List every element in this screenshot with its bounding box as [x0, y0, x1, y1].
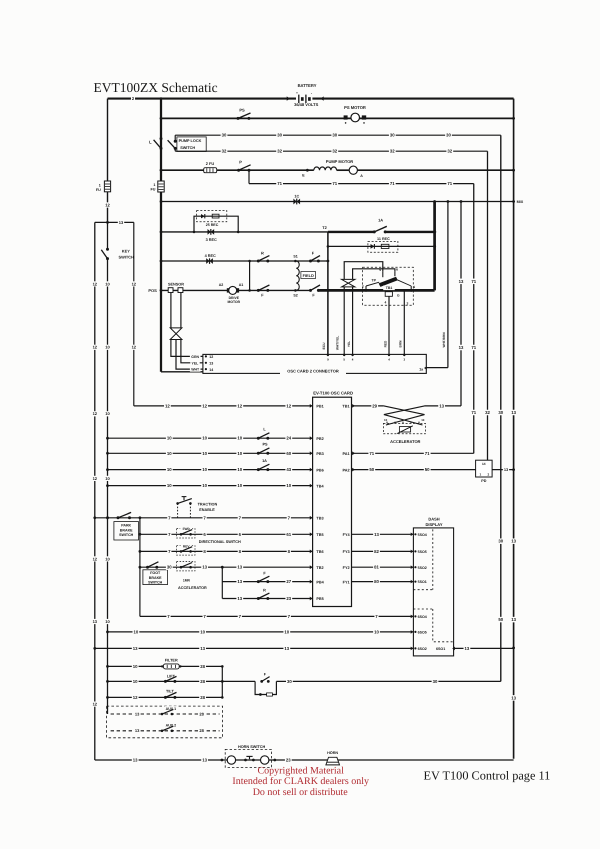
- potentiometer ACCELERATOR with crossed leads: [383, 406, 425, 444]
- wire vertical net 71 (x=473.75): [470, 184, 477, 454]
- svg-text:13: 13: [200, 646, 205, 651]
- pin 6SO2: [411, 647, 427, 651]
- wire row TB6 net 7/8 with switch REV: [140, 549, 350, 555]
- svg-text:50: 50: [498, 617, 503, 622]
- svg-text:10: 10: [133, 679, 138, 684]
- display DASH DISPLAY box: [413, 516, 453, 656]
- svg-text:28: 28: [199, 728, 204, 733]
- svg-text:12: 12: [105, 202, 110, 207]
- svg-text:13: 13: [511, 617, 516, 622]
- svg-text:13: 13: [511, 410, 516, 415]
- svg-text:30: 30: [287, 679, 292, 684]
- switch KEY SWITCH: [101, 248, 134, 260]
- svg-text:1: 1: [99, 184, 101, 188]
- svg-text:PS: PS: [239, 108, 245, 113]
- wire row AUX 1 (dashed) net 13/28: [111, 706, 220, 717]
- wire net 13 MIX row (y=201.5): [161, 201, 514, 203]
- battery 36/48V: [294, 83, 318, 107]
- inductor FIELD winding: [296, 261, 315, 290]
- svg-text:32: 32: [222, 149, 227, 154]
- switch PS: [237, 108, 251, 120]
- wire row net 10 to 6SO5 (y=631.9): [108, 629, 414, 635]
- svg-text:DISPLAY: DISPLAY: [426, 522, 443, 527]
- svg-text:RED: RED: [384, 340, 388, 347]
- connector arrow right of battery: [320, 96, 323, 100]
- fuse 1FU (left): [96, 181, 111, 208]
- wire row TB1 net 29/13 to accelerator: [342, 403, 461, 409]
- svg-text:10: 10: [105, 619, 110, 624]
- svg-text:32: 32: [277, 149, 282, 154]
- svg-text:MIX: MIX: [517, 200, 524, 204]
- wire pump motor row (y=170.2): [161, 169, 514, 171]
- svg-text:4 REC: 4 REC: [205, 254, 216, 258]
- svg-text:TRACTION: TRACTION: [198, 503, 218, 507]
- pin 5SO2: [411, 565, 427, 569]
- svg-text:TB2: TB2: [316, 566, 323, 570]
- svg-text:13: 13: [119, 220, 124, 225]
- svg-text:A2: A2: [219, 283, 224, 287]
- wire vertical net 13 branch (x=461): [458, 202, 465, 406]
- svg-text:FY4: FY4: [343, 533, 351, 537]
- wire row AUX 2 (dashed) net 13/28: [111, 723, 220, 734]
- svg-text:5SO2: 5SO2: [418, 566, 427, 570]
- switch TRACTION ENABLE (dashed): [176, 497, 217, 518]
- svg-text:Intended for CLARK dealers onl: Intended for CLARK dealers only: [232, 776, 369, 787]
- svg-text:50: 50: [425, 467, 430, 472]
- svg-text:YEL: YEL: [191, 361, 199, 365]
- svg-text:WHT/YEL: WHT/YEL: [336, 336, 340, 350]
- svg-text:10: 10: [374, 629, 379, 634]
- svg-text:10: 10: [202, 451, 207, 456]
- svg-text:3: 3: [407, 302, 409, 306]
- wire 4REC row (y=261): [161, 260, 328, 262]
- svg-text:12: 12: [93, 281, 98, 286]
- label YEL rotated: [347, 341, 351, 347]
- wire row PA1 net 71: [342, 451, 473, 457]
- svg-text:30: 30: [498, 539, 503, 544]
- svg-text:3 REC: 3 REC: [206, 238, 217, 242]
- wire WHT lead: [176, 340, 203, 372]
- svg-text:TP: TP: [372, 278, 377, 282]
- svg-text:10: 10: [134, 629, 139, 634]
- pin 1a: [419, 366, 427, 371]
- svg-text:10: 10: [105, 556, 110, 561]
- svg-text:A1: A1: [239, 283, 244, 287]
- wire row PB4 net 13/27 with switch F: [222, 572, 349, 585]
- svg-text:DASH: DASH: [428, 516, 439, 521]
- svg-text:PS: PS: [262, 443, 268, 447]
- svg-text:GRN: GRN: [191, 355, 199, 359]
- svg-text:13: 13: [202, 565, 207, 570]
- sensor SENSOR pickup: [168, 283, 184, 293]
- svg-text:PB1: PB1: [316, 405, 323, 409]
- pin 5: [379, 268, 383, 277]
- svg-text:13: 13: [284, 646, 289, 651]
- pin 5SO5: [411, 550, 427, 554]
- svg-text:13: 13: [209, 362, 213, 366]
- pin 5SO1: [411, 580, 427, 584]
- svg-text:10: 10: [167, 483, 172, 488]
- svg-text:10: 10: [105, 411, 110, 416]
- svg-text:Do not sell or distribute: Do not sell or distribute: [253, 787, 349, 798]
- svg-text:12: 12: [237, 403, 242, 408]
- wire GRN lead: [171, 340, 203, 360]
- wire key switch top link (y=222.4): [95, 220, 134, 225]
- svg-text:71: 71: [471, 279, 476, 284]
- fuse 2FU: [204, 161, 217, 173]
- svg-text:29: 29: [372, 403, 377, 408]
- wire heavy contactor bus (x=434.6): [433, 202, 436, 291]
- svg-text:PB4: PB4: [316, 580, 324, 584]
- node T2 / wire vertical T2 to ECU: [322, 225, 329, 355]
- wire row PB3 net 10/60 with switch PS: [108, 443, 324, 456]
- switch REV (dashed): [177, 543, 195, 555]
- node E junction: [302, 169, 309, 178]
- svg-text:+: +: [296, 91, 298, 95]
- svg-text:71: 71: [471, 345, 476, 350]
- svg-text:71: 71: [332, 181, 337, 186]
- wire key-switch vertical net 10 (x=107.5): [104, 222, 110, 714]
- svg-text:10: 10: [167, 467, 172, 472]
- pin 2: [362, 282, 379, 292]
- svg-text:13: 13: [202, 758, 207, 763]
- wire net 71 (y=183.6): [249, 170, 474, 186]
- wire row PB2 net 10/24 with switch L: [108, 427, 324, 441]
- svg-text:BRN: BRN: [399, 340, 403, 348]
- diode-resistor 11REC: [368, 237, 398, 252]
- svg-text:PA1: PA1: [342, 452, 349, 456]
- svg-text:13: 13: [135, 711, 140, 716]
- svg-text:KEY: KEY: [122, 248, 130, 253]
- diode 1C: [293, 194, 300, 205]
- svg-text:13: 13: [511, 539, 516, 544]
- wire YEL lead: [181, 340, 203, 366]
- svg-text:30: 30: [332, 133, 337, 138]
- connector top pin dots: [327, 354, 406, 362]
- svg-text:R: R: [261, 251, 264, 256]
- switch F (field top): [309, 250, 320, 262]
- svg-text:WHT: WHT: [191, 368, 200, 372]
- wire row FY4 net 13 to dash 5SO4: [352, 532, 414, 538]
- pin 6SO5: [411, 630, 427, 634]
- svg-text:32: 32: [390, 149, 395, 154]
- pin 6SO1 with wire net 13: [436, 646, 514, 652]
- svg-text:FY3: FY3: [343, 550, 350, 554]
- module PD: [476, 460, 493, 483]
- svg-text:PA2: PA2: [342, 468, 349, 472]
- switch FWD (dashed): [177, 526, 195, 538]
- svg-text:1: 1: [480, 472, 482, 476]
- svg-text:12: 12: [286, 403, 291, 408]
- svg-text:PB2: PB2: [316, 437, 323, 441]
- wire row FY2 net 81 to dash 5SO2: [352, 564, 414, 570]
- svg-text:27: 27: [286, 579, 291, 584]
- switch R (field): [257, 251, 270, 263]
- svg-text:ENABLE: ENABLE: [199, 508, 215, 512]
- filter FILTER component: [161, 658, 182, 669]
- wire 11REC row (y=246.4): [327, 245, 437, 248]
- svg-text:6SO1: 6SO1: [436, 647, 445, 651]
- wire row LIFT net 10/28/30 (y=681.4): [108, 674, 501, 685]
- svg-text:36/48 VOLTS: 36/48 VOLTS: [294, 102, 318, 107]
- switch 1A: [373, 218, 387, 234]
- label DIRECTIONAL SWITCH: [199, 540, 241, 544]
- svg-text:Copyrighted Material: Copyrighted Material: [258, 766, 345, 777]
- svg-text:1C: 1C: [294, 194, 299, 198]
- svg-text:13: 13: [135, 728, 140, 733]
- svg-text:71: 71: [447, 181, 452, 186]
- svg-text:A: A: [360, 174, 363, 178]
- svg-text:12: 12: [133, 695, 138, 700]
- svg-text:ACCELERATOR: ACCELERATOR: [390, 439, 420, 444]
- svg-text:10: 10: [284, 629, 289, 634]
- wire vertical net 12 to PB1 (x=133.8): [131, 222, 137, 406]
- svg-text:10: 10: [384, 418, 388, 422]
- svg-text:12: 12: [93, 702, 98, 707]
- svg-text:12: 12: [132, 281, 137, 286]
- switch P: [237, 159, 251, 171]
- svg-text:ECU: ECU: [322, 342, 326, 350]
- svg-text:1: 1: [153, 183, 155, 187]
- svg-text:SENSOR: SENSOR: [168, 283, 184, 287]
- svg-text:12: 12: [202, 403, 207, 408]
- svg-text:5: 5: [379, 268, 381, 272]
- svg-text:50: 50: [369, 467, 374, 472]
- svg-text:61: 61: [286, 532, 291, 537]
- junction dots on main bus: [160, 97, 163, 292]
- svg-text:-: -: [311, 92, 312, 96]
- fuse 1FU (main bus): [150, 181, 164, 192]
- svg-text:13: 13: [421, 418, 425, 422]
- svg-text:23: 23: [286, 758, 291, 763]
- wire row PA2 net 50: [342, 467, 475, 473]
- svg-text:PB3: PB3: [316, 452, 323, 456]
- transformer TP pickup bar: [372, 277, 398, 291]
- footer page label: [424, 768, 551, 782]
- svg-text:32: 32: [447, 149, 452, 154]
- wire sensor2 loop inner to TB1 pin 6: [353, 269, 395, 280]
- motor DRIVE MOTOR: [219, 283, 244, 304]
- svg-text:BATTERY: BATTERY: [298, 83, 317, 88]
- svg-text:30: 30: [390, 133, 395, 138]
- junction dots on MIX row: [433, 200, 515, 203]
- wire vertical accelerator branch (x=222.3): [221, 567, 223, 598]
- svg-text:28: 28: [200, 664, 205, 669]
- svg-text:6SO4: 6SO4: [418, 615, 427, 619]
- relay TB1 (dashed outline): [363, 267, 414, 305]
- svg-text:SWITCH: SWITCH: [119, 533, 134, 537]
- wire TB1 coupler leads to connector: [344, 287, 352, 355]
- svg-text:OSC CARD 2 CONNECTOR: OSC CARD 2 CONNECTOR: [287, 368, 339, 373]
- svg-text:13: 13: [237, 565, 242, 570]
- wire vertical net 30 (x=500.8): [497, 135, 504, 681]
- wire vertical filter/tilt link (x=222.3): [221, 665, 224, 699]
- wire armature POS row (y=290.4): [148, 288, 434, 293]
- svg-text:EVT100ZX Schematic: EVT100ZX Schematic: [94, 80, 218, 95]
- svg-text:10: 10: [202, 467, 207, 472]
- notice text line 1: [258, 766, 345, 777]
- svg-text:12: 12: [209, 355, 213, 359]
- svg-text:HORN: HORN: [327, 751, 338, 755]
- svg-text:30: 30: [222, 133, 227, 138]
- notice text line 2: [232, 776, 369, 787]
- svg-text:11 REC: 11 REC: [377, 237, 390, 241]
- aux options box (dashed): [107, 706, 223, 738]
- svg-text:12: 12: [93, 345, 98, 350]
- wire 1A row heavy (y=231.9 right): [328, 230, 436, 233]
- svg-text:30: 30: [167, 565, 172, 570]
- svg-text:1A: 1A: [378, 218, 383, 223]
- svg-text:24: 24: [286, 436, 291, 441]
- label WHT/YEL rotated: [336, 336, 340, 350]
- svg-text:R: R: [263, 589, 266, 593]
- node S1: [293, 255, 297, 263]
- pin 5SO4: [411, 533, 427, 537]
- svg-text:FU: FU: [96, 188, 101, 192]
- pin 12: [205, 355, 214, 359]
- wire row TB2 net 13 with FOOT BRAKE SWITCH and 1MR: [140, 562, 350, 585]
- wire row FILTER net 10/28 (y=666.4): [108, 664, 223, 670]
- svg-text:71: 71: [425, 451, 430, 456]
- svg-text:10: 10: [200, 629, 205, 634]
- svg-text:DIRECTIONAL SWITCH: DIRECTIONAL SWITCH: [199, 540, 241, 544]
- wire vertical link to armature row (x=249.6): [248, 260, 251, 292]
- wire row TB3 net 7 with PARK BRAKE SWITCH: [95, 512, 324, 540]
- pin G current sensor: [385, 292, 400, 298]
- svg-text:13: 13: [133, 646, 138, 651]
- svg-text:BRAKE: BRAKE: [120, 528, 133, 532]
- svg-text:TB5: TB5: [316, 533, 323, 537]
- wire row TB4 net 10: [108, 483, 325, 489]
- svg-text:28: 28: [199, 711, 204, 716]
- resistor-diode 25REC bypass loop: [193, 211, 240, 234]
- pin 6SO4: [411, 615, 427, 619]
- svg-text:13: 13: [465, 646, 470, 651]
- svg-text:FY2: FY2: [343, 566, 350, 570]
- svg-text:TILT: TILT: [166, 690, 174, 694]
- svg-text:PD: PD: [481, 479, 486, 483]
- wire sensor2 loop outer to TB1 pin 5: [344, 262, 383, 280]
- svg-text:60: 60: [286, 451, 291, 456]
- label BRN rotated: [399, 340, 403, 348]
- pin 6: [395, 268, 398, 277]
- svg-text:TB6: TB6: [316, 550, 323, 554]
- switch L (on bus): [149, 137, 162, 150]
- svg-text:2 FU: 2 FU: [206, 161, 215, 166]
- wire row net 7 to 6SO4 (y=616.4): [140, 614, 414, 620]
- svg-text:10: 10: [237, 436, 242, 441]
- wire row FY3 net 82 to dash 5SO5: [352, 549, 414, 555]
- svg-text:FOOT: FOOT: [150, 571, 161, 575]
- svg-text:13: 13: [511, 695, 516, 700]
- svg-text:1MR: 1MR: [183, 579, 191, 583]
- wire PS motor row (y=118.4): [161, 117, 514, 119]
- svg-text:13: 13: [93, 619, 98, 624]
- svg-text:SWITCH: SWITCH: [148, 580, 163, 584]
- wire net 30 (y=135.2): [175, 132, 501, 138]
- svg-text:71: 71: [277, 181, 282, 186]
- svg-text:4: 4: [385, 301, 387, 305]
- svg-text:28: 28: [200, 679, 205, 684]
- motor PUMP MOTOR armature: [349, 166, 363, 178]
- svg-text:SWITCH: SWITCH: [119, 255, 135, 260]
- svg-text:PS MOTOR: PS MOTOR: [344, 105, 366, 110]
- svg-text:1: 1: [413, 285, 415, 289]
- svg-text:32: 32: [332, 149, 337, 154]
- svg-text:10: 10: [237, 451, 242, 456]
- svg-text:FY1: FY1: [343, 580, 350, 584]
- wire row HORN net 13/23 (y=760): [95, 757, 514, 763]
- svg-text:10: 10: [286, 483, 291, 488]
- svg-text:10: 10: [202, 436, 207, 441]
- node MIX label: [517, 200, 524, 204]
- transducer sensor coupler (hourglass): [170, 328, 182, 340]
- svg-text:2: 2: [362, 284, 364, 288]
- svg-text:71: 71: [471, 410, 476, 415]
- svg-text:10: 10: [105, 281, 110, 286]
- svg-text:BRAKE: BRAKE: [149, 576, 162, 580]
- svg-text:12: 12: [93, 556, 98, 561]
- wire left vertical net 12 (x=94.8): [92, 222, 98, 760]
- switch HORN SWITCH (dashed box): [221, 744, 277, 767]
- svg-text:2: 2: [488, 472, 490, 476]
- svg-text:13: 13: [459, 345, 464, 350]
- svg-text:1A: 1A: [262, 459, 267, 463]
- svg-text:82: 82: [374, 549, 379, 554]
- svg-text:MOTOR: MOTOR: [228, 300, 241, 304]
- wire vertical WHT/BRN to OSC pin 1a (x=447.9): [426, 202, 448, 368]
- wire row FY1 net 80 to dash 5SO1: [352, 579, 414, 585]
- svg-text:5SO4: 5SO4: [418, 533, 427, 537]
- svg-text:30: 30: [433, 679, 438, 684]
- svg-text:10: 10: [237, 483, 242, 488]
- svg-text:28: 28: [200, 695, 205, 700]
- svg-text:HORN SWITCH: HORN SWITCH: [238, 745, 265, 749]
- svg-text:P: P: [239, 159, 242, 164]
- svg-text:FU: FU: [150, 188, 155, 192]
- diode 4REC: [204, 253, 217, 264]
- wire sensor leads: [171, 293, 181, 328]
- svg-text:32: 32: [485, 410, 490, 415]
- svg-text:TB4: TB4: [316, 484, 324, 488]
- notice text line 3: [253, 787, 349, 798]
- switch F with resistor bypass (lift circuit): [255, 672, 276, 696]
- svg-text:10: 10: [237, 467, 242, 472]
- svg-text:FILTER: FILTER: [165, 658, 178, 662]
- node S2: [293, 289, 297, 298]
- svg-text:EV-T100 OSC CARD: EV-T100 OSC CARD: [313, 391, 353, 396]
- connector OSC CARD 2 CONNECTOR box: [203, 354, 426, 374]
- wire PD output net 13: [492, 467, 513, 472]
- svg-text:23: 23: [286, 596, 291, 601]
- svg-text:14: 14: [482, 462, 486, 466]
- wire vertical net 32 (x=487.5): [484, 151, 491, 460]
- svg-text:PUMP MOTOR: PUMP MOTOR: [326, 159, 354, 164]
- svg-text:G: G: [397, 294, 400, 298]
- svg-text:25 REC: 25 REC: [206, 223, 219, 227]
- svg-text:13: 13: [439, 403, 444, 408]
- svg-text:6SO2: 6SO2: [418, 647, 427, 651]
- svg-text:30: 30: [498, 410, 503, 415]
- switch F (armature left): [257, 285, 270, 298]
- wire net 2 top horizontal: [108, 96, 514, 101]
- svg-text:6: 6: [396, 268, 398, 272]
- svg-text:71: 71: [369, 451, 374, 456]
- svg-text:S2: S2: [293, 294, 297, 298]
- svg-text:10: 10: [202, 483, 207, 488]
- label RED rotated: [384, 340, 388, 347]
- inductor pump motor field coil: [314, 159, 354, 170]
